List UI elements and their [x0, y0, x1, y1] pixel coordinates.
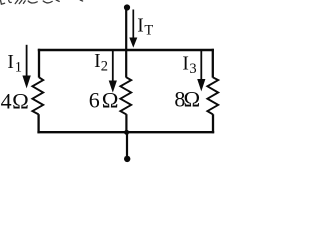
wire: right branch lower segment	[212, 114, 214, 133]
svg-text:1: 1	[15, 60, 22, 76]
wire: bottom rail to bottom terminal	[126, 132, 128, 156]
svg-text:I: I	[7, 52, 13, 73]
resistor R3 8ohm zigzag	[207, 77, 218, 114]
svg-text:3: 3	[189, 61, 196, 77]
svg-text:I: I	[182, 53, 189, 74]
bottom rail wire	[37, 131, 214, 133]
top terminal	[124, 4, 130, 10]
resistor R2 6ohm zigzag	[120, 77, 131, 114]
svg-text:4: 4	[1, 89, 12, 114]
current arrow IT	[132, 10, 134, 40]
wire: top terminal down to top rail	[125, 9, 127, 51]
top rail wire	[38, 49, 214, 51]
clipped text fragments at top edge	[1, 0, 83, 4]
wire: left branch lower segment	[37, 114, 39, 133]
svg-text:2: 2	[101, 59, 108, 75]
wire: left branch upper segment	[38, 49, 40, 78]
wire: middle branch lower segment	[125, 114, 127, 133]
resistor R1 4ohm zigzag	[32, 77, 43, 114]
svg-text:6: 6	[89, 87, 100, 112]
svg-text:Ω: Ω	[184, 86, 201, 111]
current arrow I1	[26, 45, 28, 78]
svg-text:I: I	[137, 16, 144, 37]
svg-text:T: T	[144, 23, 153, 39]
current arrow I2	[112, 50, 114, 82]
bottom terminal	[124, 156, 130, 162]
svg-text:Ω: Ω	[12, 89, 29, 114]
svg-text:Ω: Ω	[102, 87, 119, 112]
junction dot on bottom rail	[124, 130, 129, 135]
wire: middle branch upper segment	[125, 50, 127, 78]
wire: right branch upper segment	[212, 49, 214, 78]
current arrow I3	[200, 50, 202, 81]
svg-text:I: I	[94, 51, 101, 72]
